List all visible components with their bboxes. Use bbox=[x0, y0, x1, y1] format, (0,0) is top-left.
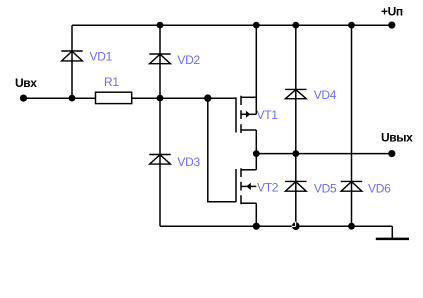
svg-text:VD1: VD1 bbox=[90, 50, 113, 64]
svg-text:VT2: VT2 bbox=[257, 181, 279, 195]
svg-text:VD3: VD3 bbox=[177, 155, 200, 169]
svg-text:R1: R1 bbox=[104, 75, 119, 89]
svg-text:VD6: VD6 bbox=[368, 181, 391, 195]
svg-text:VD5: VD5 bbox=[314, 181, 337, 195]
svg-text:VT1: VT1 bbox=[257, 108, 279, 122]
svg-text:Uвых: Uвых bbox=[381, 131, 413, 145]
svg-text:VD4: VD4 bbox=[314, 88, 337, 102]
svg-text:+Uп: +Uп bbox=[381, 5, 403, 19]
svg-text:VD2: VD2 bbox=[177, 53, 200, 67]
svg-text:Uвх: Uвх bbox=[15, 76, 37, 90]
